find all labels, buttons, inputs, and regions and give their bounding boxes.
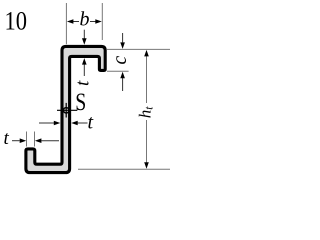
label h_t (rotated) xyxy=(135,106,155,119)
lip thickness t: right arrow pointing left xyxy=(41,140,59,142)
centroid S: ring xyxy=(63,108,68,113)
web thickness t: left arrow pointing right xyxy=(39,122,54,124)
lip thickness t: extension line left xyxy=(26,132,28,147)
lip thickness t: left arrow pointing right xyxy=(12,140,20,142)
dimension h_t: vertical line upper segment with up arrow xyxy=(146,56,148,104)
svg-text:S: S xyxy=(75,87,86,116)
dimension c: bottom arrow pointing up xyxy=(122,78,124,91)
lip thickness t: extension line right xyxy=(34,132,36,147)
svg-text:t: t xyxy=(4,128,10,149)
dimension c: top extension line (flange mid level) xyxy=(107,48,170,50)
dimension h_t: bottom extension line (bottom flange mid level) xyxy=(78,168,170,170)
dimension b: extension line right (lip centerline) xyxy=(101,3,103,40)
dimension h_t: vertical line lower segment with down arrow xyxy=(146,120,148,163)
web thickness t: right arrow pointing left xyxy=(78,122,88,124)
flange thickness t: lower arrow pointing up xyxy=(83,64,85,76)
svg-text:10: 10 xyxy=(5,7,28,36)
svg-text:b: b xyxy=(80,9,90,31)
dimension b: right arrow xyxy=(90,21,96,23)
flange thickness t: upper arrow pointing down xyxy=(83,30,85,39)
svg-text:c: c xyxy=(110,56,131,65)
dimension b: left arrow xyxy=(73,21,80,23)
svg-text:t: t xyxy=(88,112,94,134)
svg-text:t: t xyxy=(73,80,94,86)
Z-profile cross-section xyxy=(26,46,105,172)
dimension c: bottom extension line (lip end) xyxy=(107,70,129,72)
centroid S: horizontal crosshair xyxy=(57,109,77,111)
dimension c: top arrow pointing down xyxy=(122,33,124,42)
dimension b: extension line left (web centerline) xyxy=(65,3,67,44)
centroid S: vertical crosshair xyxy=(65,103,67,118)
